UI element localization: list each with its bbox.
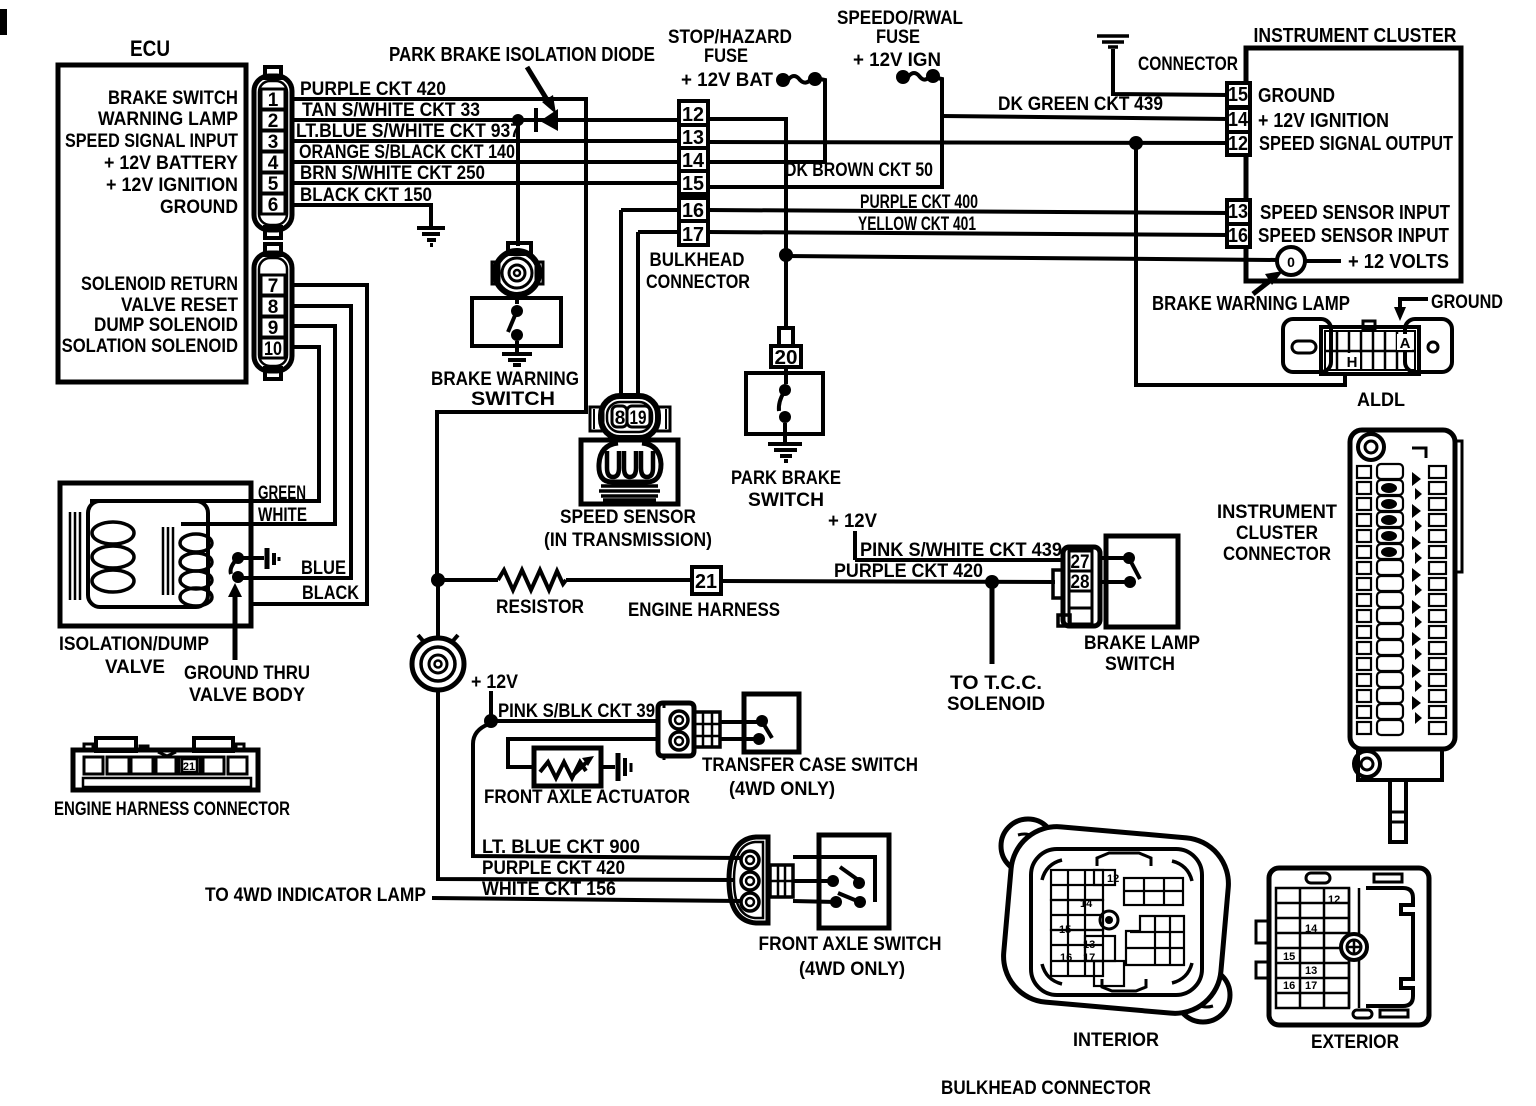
svg-text:DK GREEN CKT 439: DK GREEN CKT 439: [998, 94, 1163, 115]
svg-text:WHITE: WHITE: [258, 505, 307, 526]
cluster pin 16: [1227, 224, 1250, 247]
brake lamp switch wires and contacts: [1100, 556, 1129, 560]
wire to resistor: [438, 578, 498, 582]
front axle 3-pin connector: [729, 837, 768, 923]
svg-text:14: 14: [1305, 923, 1318, 935]
exterior bulkhead connector outer shell: [1269, 868, 1429, 1025]
ALDL center shell grid: [1321, 321, 1419, 374]
svg-text:4: 4: [268, 153, 279, 174]
front axle actuator box: [534, 748, 601, 786]
svg-text:+ 12V BAT: + 12V BAT: [681, 70, 773, 91]
svg-text:GROUND: GROUND: [160, 197, 238, 218]
wire ECU pin10 to valve green: [90, 347, 319, 501]
cluster pin 15: [1227, 83, 1250, 107]
park brake switch box: [746, 373, 823, 434]
valve switch contacts: [232, 552, 244, 564]
brake lamp connector empty cells: [1069, 591, 1092, 608]
arrow to diode: [527, 67, 549, 103]
valve mid coil windings: [180, 534, 212, 606]
arrow to brake warning lamp: [1253, 280, 1271, 294]
front axle connector hatch block: [770, 865, 793, 897]
ground symbol above cluster connector: [1097, 36, 1129, 47]
ground below brake warning switch: [502, 341, 532, 365]
wire +12V tick to pink junction: [489, 691, 493, 721]
svg-text:(4WD ONLY): (4WD ONLY): [799, 959, 905, 980]
ALDL right mount tab: [1405, 319, 1452, 372]
svg-text:BRAKE WARNING LAMP: BRAKE WARNING LAMP: [1152, 293, 1350, 315]
ALDL left mount tab: [1283, 319, 1331, 372]
svg-text:SPEED SIGNAL OUTPUT: SPEED SIGNAL OUTPUT: [1259, 133, 1453, 155]
interior connector left pin grid: [1051, 870, 1124, 986]
svg-text:PURPLE CKT 400: PURPLE CKT 400: [860, 192, 978, 213]
svg-text:SPEED SENSOR: SPEED SENSOR: [560, 507, 696, 528]
wire purple down from grommet to front axle row: [438, 690, 735, 880]
wire +12 VOLTS row to instrument cluster lamp: [786, 256, 1278, 260]
wire ORANGE S/BLACK CKT 140 from ECU pin4: [292, 160, 679, 164]
cluster pin 12: [1227, 132, 1250, 155]
wire PINK S/WHITE CKT 439: [855, 558, 1065, 562]
svg-text:GROUND THRU: GROUND THRU: [184, 663, 310, 684]
wire speed sensor pin8 up to bulkhead pin16: [619, 210, 623, 396]
svg-text:TAN S/WHITE CKT 33: TAN S/WHITE CKT 33: [302, 100, 480, 121]
wire lt.blue branch down to front axle switch: [473, 724, 741, 858]
wire to TCC solenoid: [990, 582, 995, 664]
exterior connector bottom slots: [1353, 1010, 1372, 1018]
svg-text:12: 12: [1228, 133, 1248, 155]
wire lamp to +12 VOLTS label: [1305, 259, 1341, 263]
svg-text:PURPLE CKT 420: PURPLE CKT 420: [300, 79, 446, 100]
junction dot purple/resistor node: [431, 573, 445, 587]
svg-text:+ 12V: + 12V: [828, 511, 877, 532]
speed sensor pin 8: [612, 406, 627, 427]
ALDL pin H label: [1345, 353, 1360, 369]
arrow ALDL ground: [1400, 299, 1428, 308]
interior connector right bottom grid: [1126, 916, 1184, 965]
valve left coil core bars: [70, 512, 80, 600]
SEC_ECU: [292, 99, 679, 580]
svg-text:14: 14: [1228, 109, 1249, 131]
ECU C2 pin 8: [261, 296, 285, 316]
svg-text:SWITCH: SWITCH: [471, 389, 555, 410]
speed sensor connector oval: [590, 396, 670, 438]
wire BRN S/WHITE CKT 250 from ECU pin5: [292, 181, 679, 185]
wire pin12 branch down to ALDL: [1136, 143, 1345, 385]
svg-text:VALVE BODY: VALVE BODY: [189, 685, 305, 706]
svg-text:SOLENOID: SOLENOID: [947, 694, 1045, 715]
svg-text:FRONT AXLE ACTUATOR: FRONT AXLE ACTUATOR: [484, 787, 690, 808]
svg-text:SPEEDO/RWAL: SPEEDO/RWAL: [837, 8, 963, 29]
bulkhead connector pin 12: [679, 101, 708, 125]
svg-text:21: 21: [183, 761, 195, 773]
grommet connector on purple wire: [412, 635, 464, 690]
engine harness splice 21: [692, 567, 721, 594]
instrument cluster box: [1246, 48, 1461, 281]
svg-text:SPEED SENSOR INPUT: SPEED SENSOR INPUT: [1260, 202, 1450, 224]
exterior connector left tabs: [1256, 921, 1269, 943]
transfer case 2-pin connector: [658, 703, 694, 760]
ECU connector C1 body: [254, 67, 292, 238]
wire TAN branch down to brake warning switch: [516, 120, 520, 246]
fuse STOP/HAZARD symbol: [776, 73, 790, 87]
svg-text:TO T.C.C.: TO T.C.C.: [950, 673, 1042, 694]
svg-text:16: 16: [682, 200, 704, 222]
exterior connector pin grid: [1276, 888, 1359, 1008]
instrument cluster connector body: [1350, 430, 1462, 842]
wire PURPLE CKT 420 from ECU pin1: [292, 99, 586, 580]
speed sensor pin 19: [627, 406, 650, 427]
park brake switch contacts: [779, 384, 791, 396]
wire TAN S/WHITE CKT 33 from ECU pin2: [292, 118, 679, 122]
svg-text:12: 12: [682, 104, 704, 126]
ground symbol for BLACK CKT 150: [417, 228, 445, 245]
svg-text:ECU: ECU: [130, 36, 170, 61]
svg-text:SPEED SENSOR INPUT: SPEED SENSOR INPUT: [1258, 225, 1449, 247]
wire DK BROWN CKT 50 right of pin15 up to speedo fuse: [708, 78, 942, 187]
wire ground to cluster pin15: [1113, 49, 1229, 95]
svg-text:6: 6: [268, 195, 279, 216]
wire ECU pin9 to valve white: [181, 326, 335, 524]
svg-text:14: 14: [682, 150, 705, 172]
svg-text:2: 2: [268, 111, 279, 132]
svg-text:PARK BRAKE ISOLATION DIODE: PARK BRAKE ISOLATION DIODE: [389, 44, 655, 66]
wire BLACK CKT 150 from ECU pin6: [292, 205, 431, 226]
svg-text:BLACK CKT 150: BLACK CKT 150: [300, 185, 432, 206]
svg-text:+ 12V BATTERY: + 12V BATTERY: [104, 153, 238, 174]
speed sensor laminations: [599, 486, 660, 500]
wires front axle connector to switch: [793, 855, 821, 859]
svg-text:LT.BLUE S/WHITE CKT 937: LT.BLUE S/WHITE CKT 937: [296, 121, 520, 142]
svg-text:13: 13: [1228, 201, 1248, 223]
interior connector center bolt: [1100, 911, 1118, 929]
interior connector right top grid: [1124, 878, 1183, 905]
svg-text:VALVE: VALVE: [105, 657, 165, 678]
junction dot +12V branch on park brake feed: [779, 248, 793, 262]
cluster pin 13: [1227, 200, 1250, 224]
ALDL pin A label: [1397, 334, 1412, 350]
svg-text:H: H: [1347, 354, 1358, 371]
ECU C1 pin 4: [261, 152, 285, 172]
park brake switch connector terminal: [779, 328, 793, 346]
park brake switch pin 20: [771, 346, 801, 367]
wire resistor to engine harness 21: [566, 578, 692, 582]
ECU C1 pin 3: [261, 131, 285, 151]
wire PURPLE CKT 400 from pin16 to cluster pin13: [621, 208, 679, 212]
svg-text:YELLOW CKT 401: YELLOW CKT 401: [858, 214, 976, 235]
wire +12V tick to pink s/white: [853, 531, 857, 560]
resistor R1: [498, 570, 566, 590]
svg-text:SWITCH: SWITCH: [748, 490, 824, 511]
interior connector top and bottom tabs: [1097, 853, 1151, 991]
svg-text:5: 5: [268, 174, 279, 195]
wires connector to transfer case switch: [720, 720, 762, 724]
ECU C1 pin 6: [261, 194, 285, 214]
front axle switch contacts bottom: [830, 896, 842, 908]
front axle actuator loop wire: [508, 739, 656, 767]
svg-text:CONNECTOR: CONNECTOR: [1138, 54, 1238, 75]
wire LT.BLUE S/WHITE CKT 937 from ECU pin3: [292, 139, 679, 143]
svg-text:FUSE: FUSE: [876, 27, 920, 48]
svg-text:PURPLE CKT 420: PURPLE CKT 420: [834, 561, 983, 582]
brake warning lamp symbol: [1277, 247, 1305, 275]
junction dot TAN/diode node: [512, 114, 524, 126]
wire speed sensor pin19 up to bulkhead pin17: [636, 232, 640, 396]
svg-text:15: 15: [1059, 924, 1071, 936]
brake lamp connector pin 28: [1069, 571, 1092, 591]
svg-text:0: 0: [1287, 254, 1295, 270]
svg-text:DUMP SOLENOID: DUMP SOLENOID: [94, 315, 238, 336]
wire YELLOW CKT 401 from pin17 to cluster pin16: [638, 230, 679, 234]
svg-text:SPEED SIGNAL INPUT: SPEED SIGNAL INPUT: [65, 131, 238, 152]
ECU C1 pin 2: [261, 110, 285, 130]
svg-text:12: 12: [1107, 873, 1119, 885]
svg-text:INTERIOR: INTERIOR: [1073, 1030, 1159, 1051]
svg-text:ISOLATION SOLENOID: ISOLATION SOLENOID: [57, 336, 238, 357]
speed sensor body: [581, 440, 678, 504]
svg-text:ORANGE S/BLACK CKT 140: ORANGE S/BLACK CKT 140: [299, 142, 515, 163]
svg-text:GREEN: GREEN: [258, 483, 306, 504]
svg-text:12: 12: [1328, 894, 1340, 906]
wire ECU pin8 to valve blue: [243, 306, 351, 578]
svg-text:16: 16: [1283, 980, 1295, 992]
valve left coil windings: [92, 522, 134, 592]
svg-text:SOLENOID RETURN: SOLENOID RETURN: [81, 274, 238, 295]
svg-text:BULKHEAD CONNECTOR: BULKHEAD CONNECTOR: [941, 1078, 1151, 1099]
svg-text:20: 20: [775, 347, 798, 369]
ECU connector C2 body: [254, 244, 292, 379]
svg-text:17: 17: [1083, 952, 1095, 964]
svg-text:BRAKE SWITCH: BRAKE SWITCH: [108, 88, 238, 109]
svg-text:EXTERIOR: EXTERIOR: [1311, 1032, 1399, 1053]
front axle switch inner wiring: [819, 857, 875, 902]
svg-text:10: 10: [264, 339, 282, 360]
svg-text:CLUSTER: CLUSTER: [1236, 523, 1318, 544]
svg-text:+ 12 VOLTS: + 12 VOLTS: [1348, 251, 1449, 273]
svg-text:BLUE: BLUE: [301, 558, 346, 579]
svg-text:PINK S/BLK CKT 39: PINK S/BLK CKT 39: [498, 701, 655, 722]
engine harness connector cells: [84, 757, 247, 774]
junction dot pink +12V node: [484, 714, 498, 728]
ECU C1 pin 5: [261, 173, 285, 193]
svg-text:BLACK: BLACK: [302, 583, 359, 604]
svg-text:INSTRUMENT CLUSTER: INSTRUMENT CLUSTER: [1254, 25, 1457, 47]
svg-text:A: A: [1400, 335, 1411, 352]
brake warning switch grommet connector: [492, 243, 543, 295]
exterior connector bolt: [1341, 934, 1367, 960]
engine harness connector pin 21: [182, 759, 197, 772]
svg-text:ENGINE HARNESS CONNECTOR: ENGINE HARNESS CONNECTOR: [54, 799, 290, 820]
svg-text:GROUND: GROUND: [1431, 292, 1503, 313]
svg-text:TRANSFER CASE SWITCH: TRANSFER CASE SWITCH: [702, 755, 918, 776]
svg-text:BRAKE WARNING: BRAKE WARNING: [431, 369, 579, 390]
svg-text:+ 12V IGN: + 12V IGN: [853, 50, 941, 71]
brake warning switch box: [472, 298, 561, 346]
svg-text:7: 7: [268, 276, 279, 297]
svg-text:9: 9: [268, 318, 279, 339]
transfer case switch contacts: [756, 715, 768, 727]
valve body ground symbol: [243, 556, 264, 560]
diode CR1 park brake isolation diode: [540, 109, 558, 131]
svg-text:ISOLATION/DUMP: ISOLATION/DUMP: [59, 634, 209, 655]
brake lamp connector pin 27: [1069, 551, 1092, 571]
brake warning switch contacts: [511, 305, 523, 317]
svg-text:PARK BRAKE: PARK BRAKE: [731, 468, 841, 489]
bulkhead connector pin 15: [679, 171, 708, 194]
svg-text:STOP/HAZARD: STOP/HAZARD: [668, 27, 792, 48]
instrument cluster connector cell grid: [1357, 464, 1446, 735]
svg-text:8: 8: [615, 408, 626, 429]
svg-text:ENGINE HARNESS: ENGINE HARNESS: [628, 600, 780, 621]
bulkhead connector pin 16: [679, 198, 708, 221]
wire WHITE CKT 156 row: [432, 898, 741, 901]
svg-text:TO 4WD INDICATOR LAMP: TO 4WD INDICATOR LAMP: [205, 885, 426, 906]
svg-text:CONNECTOR: CONNECTOR: [1223, 544, 1331, 565]
svg-text:GROUND: GROUND: [1258, 85, 1335, 107]
ECU C2 pin 10: [261, 338, 285, 358]
instrument cluster connector keyed pins: [1381, 472, 1422, 724]
svg-text:17: 17: [1305, 980, 1317, 992]
svg-text:+ 12V IGNITION: + 12V IGNITION: [1258, 110, 1389, 132]
svg-text:8: 8: [268, 297, 279, 318]
ground arrow GROUND THRU VALVE BODY: [233, 594, 238, 660]
svg-text:13: 13: [1083, 939, 1095, 951]
scan mark top-left edge: [0, 9, 7, 35]
wire ORANGE continues right of pin14 up to stop/hazard fuse: [708, 79, 825, 162]
front axle actuator body ground: [601, 765, 615, 769]
svg-text:16: 16: [1060, 952, 1072, 964]
svg-text:15: 15: [682, 173, 704, 195]
svg-text:+ 12V IGNITION: + 12V IGNITION: [106, 175, 238, 196]
brake lamp switch box: [1106, 536, 1178, 627]
svg-text:17: 17: [682, 224, 704, 246]
transfer case switch box: [744, 694, 799, 752]
wire ECU pin7 to valve black: [251, 285, 367, 604]
ground below park brake switch: [768, 423, 802, 461]
exterior connector top slots: [1306, 873, 1330, 883]
svg-text:3: 3: [268, 132, 279, 153]
front axle switch contacts top: [827, 875, 839, 887]
svg-text:CONNECTOR: CONNECTOR: [646, 272, 750, 293]
wire DK GREEN CKT 439 to cluster pin14: [942, 116, 1229, 119]
interior connector corner arcs: [1042, 860, 1192, 984]
svg-text:16: 16: [1228, 225, 1248, 247]
svg-text:LT. BLUE CKT 900: LT. BLUE CKT 900: [482, 837, 640, 858]
svg-text:RESISTOR: RESISTOR: [496, 597, 584, 618]
SEC_BOTTOM: [90, 285, 367, 604]
svg-text:15: 15: [1228, 84, 1248, 106]
speed sensor coil trident: [599, 440, 661, 482]
wire PINK S/BLK CKT 39 to transfer case connector: [491, 719, 659, 723]
svg-text:FUSE: FUSE: [704, 46, 748, 67]
fuse SPEEDO/RWAL symbol: [896, 70, 910, 84]
wire 21 to brake lamp switch pin 28: [721, 581, 1055, 582]
svg-text:13: 13: [682, 127, 704, 149]
cluster pin 14: [1227, 108, 1250, 132]
brake lamp connector 27/28: [1053, 547, 1100, 626]
svg-text:13: 13: [1305, 965, 1317, 977]
bulkhead connector pin 13: [679, 125, 708, 148]
svg-text:BRAKE LAMP: BRAKE LAMP: [1084, 633, 1200, 654]
junction dot TCC branch: [985, 575, 999, 589]
svg-text:BULKHEAD: BULKHEAD: [650, 250, 745, 271]
wire LT.BLUE continues right of pin13 to cluster pin12: [708, 142, 1229, 143]
svg-text:1: 1: [268, 90, 279, 111]
front axle actuator thermistor symbol: [540, 762, 586, 778]
isolation/dump valve outer box: [60, 483, 251, 626]
ECU C2 pin 7: [261, 275, 285, 295]
front axle switch box: [819, 835, 889, 928]
transfer case connector hatch block: [694, 712, 720, 747]
svg-text:PINK S/WHITE CKT 439: PINK S/WHITE CKT 439: [860, 540, 1062, 561]
bulkhead connector pin 14: [679, 148, 708, 171]
svg-text:WARNING LAMP: WARNING LAMP: [98, 109, 238, 130]
svg-text:INSTRUMENT: INSTRUMENT: [1217, 502, 1337, 523]
junction dot speed signal output branch: [1129, 136, 1143, 150]
engine harness connector body: [73, 738, 258, 790]
ECU C1 pin 1: [261, 89, 285, 109]
isolation/dump valve inner box: [88, 501, 208, 607]
svg-text:21: 21: [695, 571, 717, 593]
svg-text:(IN TRANSMISSION): (IN TRANSMISSION): [544, 530, 712, 551]
svg-text:14: 14: [1080, 898, 1093, 910]
ECU box: [58, 65, 246, 382]
svg-text:+ 12V: + 12V: [471, 672, 518, 693]
wire TAN continues right of pin12 down to park brake: [708, 119, 786, 330]
svg-text:15: 15: [1283, 951, 1295, 963]
svg-text:BRN S/WHITE CKT 250: BRN S/WHITE CKT 250: [300, 163, 485, 184]
bulkhead connector pin 17: [679, 221, 708, 245]
svg-text:ALDL: ALDL: [1357, 390, 1405, 411]
svg-text:VALVE RESET: VALVE RESET: [121, 295, 238, 316]
svg-text:PURPLE CKT 420: PURPLE CKT 420: [482, 858, 625, 879]
interior bulkhead connector outer shell: [1000, 819, 1233, 1022]
svg-text:DK BROWN CKT 50: DK BROWN CKT 50: [785, 160, 933, 181]
valve mid coil core bars: [163, 527, 173, 595]
svg-text:(4WD ONLY): (4WD ONLY): [729, 779, 835, 800]
engine harness connector lower slot: [83, 778, 251, 787]
svg-text:FRONT AXLE SWITCH: FRONT AXLE SWITCH: [759, 934, 942, 955]
ECU C2 pin 9: [261, 317, 285, 337]
svg-text:19: 19: [630, 408, 647, 429]
svg-text:SWITCH: SWITCH: [1105, 654, 1175, 675]
